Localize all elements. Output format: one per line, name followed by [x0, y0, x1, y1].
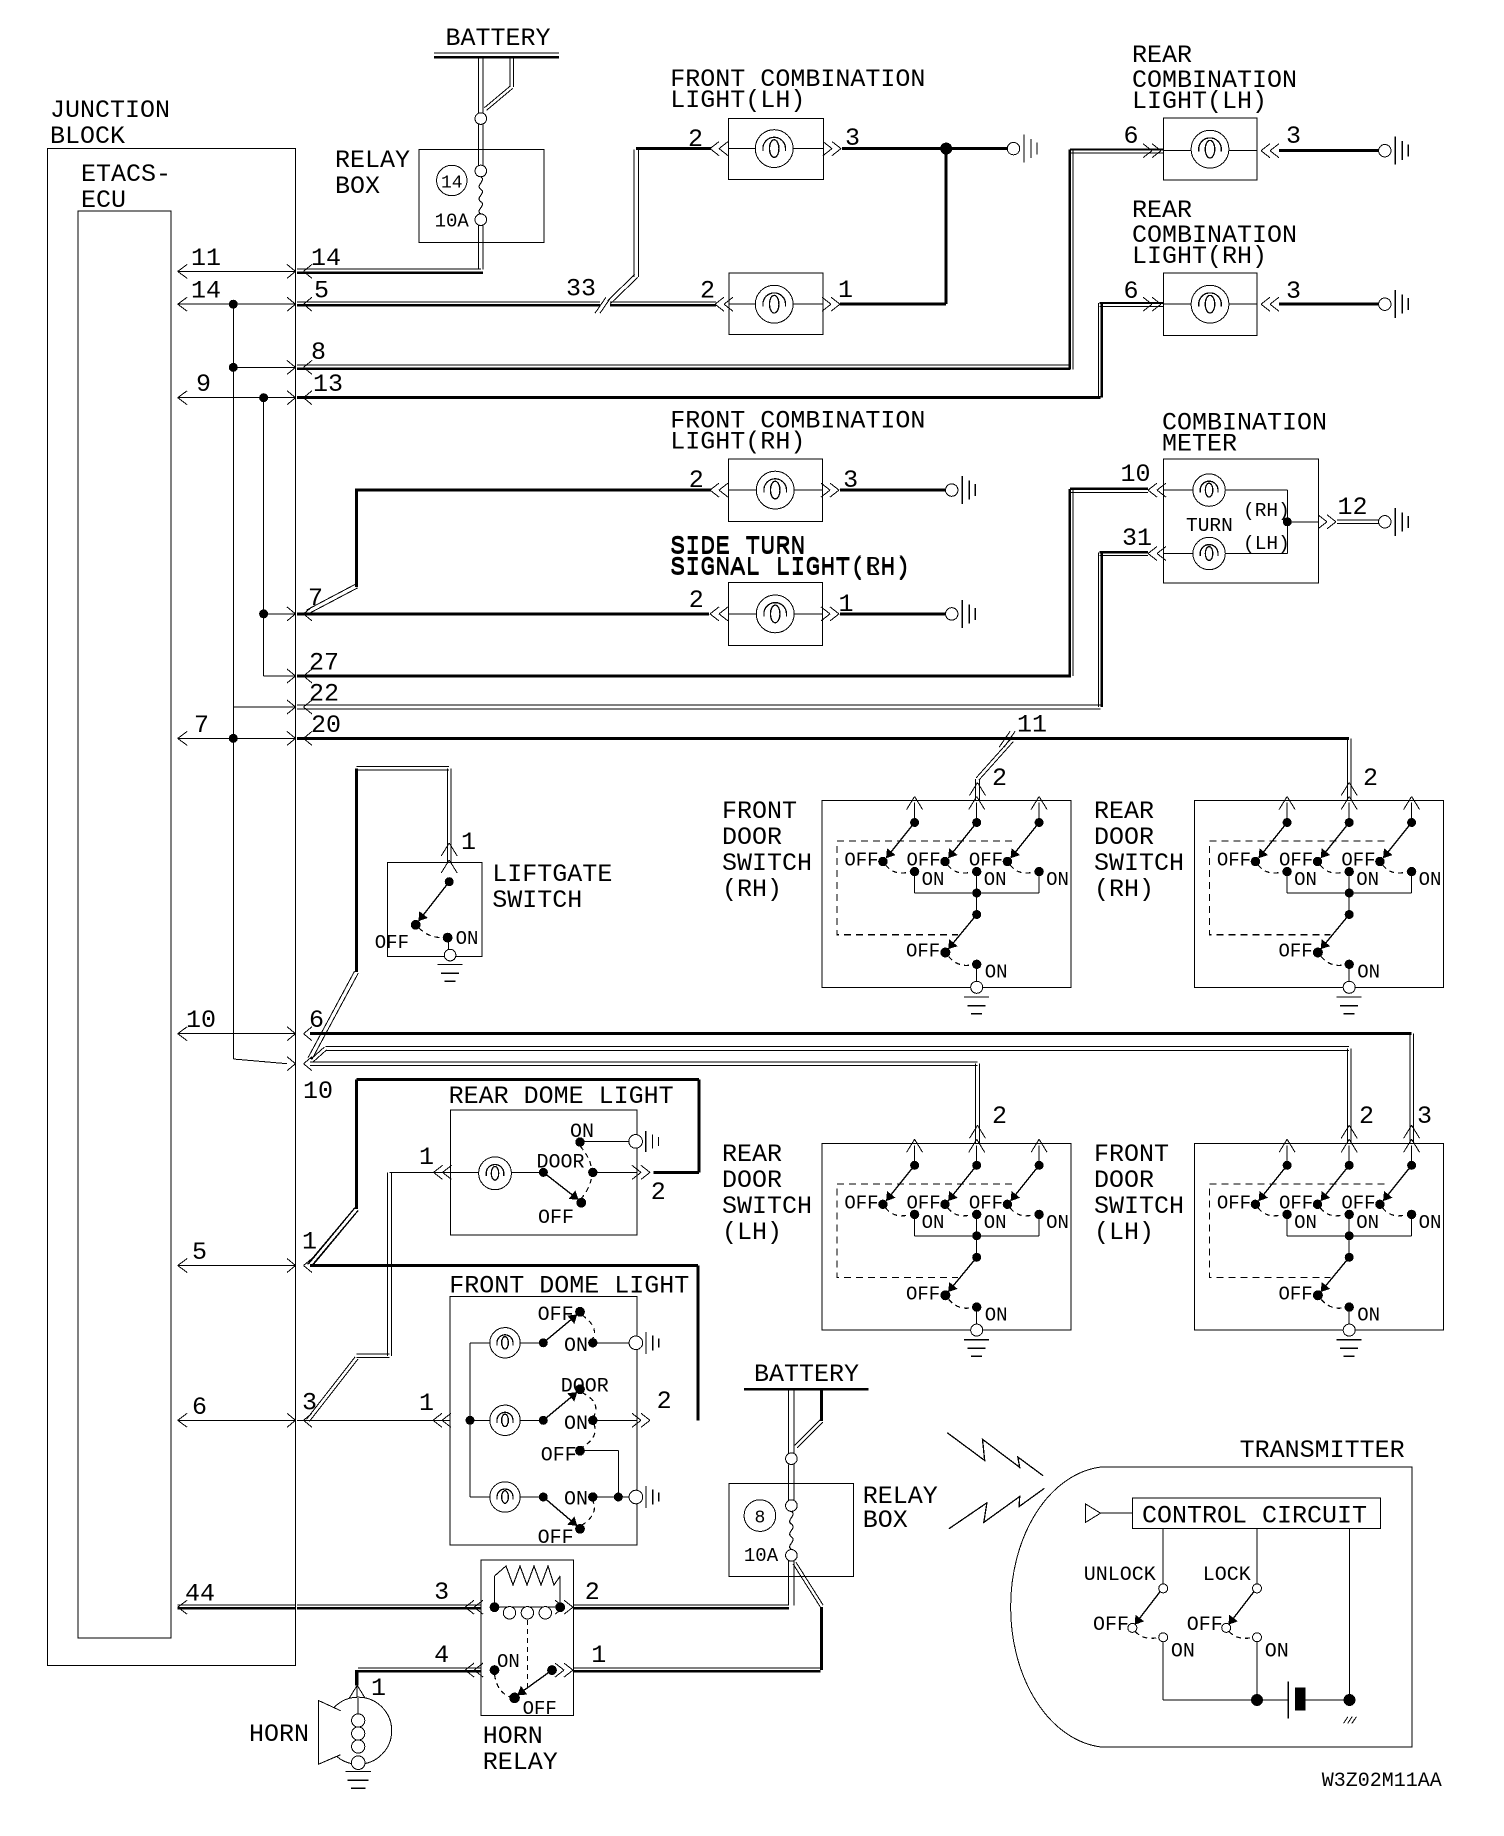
- svg-text:ON: ON: [456, 928, 479, 950]
- svg-text:8: 8: [754, 1509, 765, 1529]
- svg-text:ON: ON: [1265, 1641, 1289, 1664]
- svg-text:OFF: OFF: [1278, 941, 1312, 963]
- svg-text:ON: ON: [1419, 869, 1442, 891]
- svg-text:ON: ON: [1356, 869, 1379, 891]
- svg-text:(LH): (LH): [722, 1218, 782, 1247]
- svg-text:(LH): (LH): [1094, 1218, 1154, 1247]
- svg-text:REAR DOME LIGHT: REAR DOME LIGHT: [449, 1082, 674, 1111]
- svg-text:10A: 10A: [435, 211, 470, 233]
- svg-text:6: 6: [309, 1006, 324, 1035]
- svg-text:LIGHT(LH): LIGHT(LH): [670, 86, 805, 115]
- svg-text:OFF: OFF: [538, 1527, 574, 1550]
- svg-text:FRONT: FRONT: [722, 797, 797, 826]
- svg-text:SWITCH: SWITCH: [722, 1192, 812, 1221]
- svg-text:FRONT: FRONT: [1094, 1140, 1169, 1169]
- svg-text:OFF: OFF: [1187, 1614, 1223, 1637]
- svg-text:LIGHT(RH): LIGHT(RH): [670, 427, 805, 456]
- svg-text:OFF: OFF: [906, 1192, 940, 1214]
- svg-text:ON: ON: [564, 1335, 588, 1358]
- svg-text:ON: ON: [985, 962, 1008, 984]
- svg-text:OFF: OFF: [538, 1304, 574, 1327]
- svg-text:OFF: OFF: [523, 1698, 557, 1720]
- svg-text:ON: ON: [984, 869, 1007, 891]
- svg-text:HORN: HORN: [483, 1722, 543, 1751]
- svg-text:SWITCH: SWITCH: [1094, 849, 1184, 878]
- svg-text:OFF: OFF: [844, 850, 878, 872]
- svg-text:DOOR: DOOR: [561, 1376, 609, 1399]
- svg-text:ON: ON: [1357, 962, 1380, 984]
- svg-text:OFF: OFF: [1217, 1192, 1251, 1214]
- svg-text:METER: METER: [1162, 430, 1237, 459]
- svg-text:JUNCTION: JUNCTION: [50, 96, 170, 125]
- svg-text:SWITCH: SWITCH: [722, 849, 812, 878]
- svg-text:W3Z02M11AA: W3Z02M11AA: [1322, 1770, 1442, 1793]
- svg-text:DOOR: DOOR: [722, 823, 782, 852]
- svg-text:5: 5: [192, 1238, 207, 1267]
- svg-text:11: 11: [191, 244, 221, 273]
- svg-text:1: 1: [371, 1674, 386, 1703]
- svg-text:1: 1: [838, 276, 853, 305]
- svg-text:DOOR: DOOR: [1094, 823, 1154, 852]
- svg-text:TRANSMITTER: TRANSMITTER: [1240, 1436, 1405, 1465]
- svg-text:OFF: OFF: [1279, 1192, 1313, 1214]
- svg-text:OFF: OFF: [1341, 850, 1375, 872]
- svg-text:TURN: TURN: [1186, 515, 1233, 537]
- svg-text:(RH): (RH): [1094, 875, 1154, 904]
- svg-text:1: 1: [419, 1389, 434, 1418]
- svg-text:3: 3: [302, 1388, 317, 1417]
- svg-text:LIGHT(RH): LIGHT(RH): [1132, 242, 1267, 271]
- svg-text:22: 22: [309, 680, 339, 709]
- svg-text:ETACS-: ETACS-: [81, 160, 171, 189]
- svg-text:2: 2: [651, 1178, 666, 1207]
- svg-text:6: 6: [192, 1393, 207, 1422]
- svg-text:BATTERY: BATTERY: [754, 1360, 859, 1389]
- svg-text:BLOCK: BLOCK: [50, 122, 125, 151]
- svg-text:9: 9: [196, 370, 211, 399]
- svg-text:SWITCH: SWITCH: [1094, 1192, 1184, 1221]
- svg-text:44: 44: [185, 1580, 215, 1609]
- svg-text:ON: ON: [922, 869, 945, 891]
- svg-text:2: 2: [992, 764, 1007, 793]
- svg-text:ON: ON: [1294, 1212, 1317, 1234]
- svg-text:ON: ON: [1419, 1212, 1442, 1234]
- svg-text:ON: ON: [564, 1413, 588, 1436]
- svg-text:33: 33: [566, 275, 596, 304]
- svg-text:SIGNAL LIGHT(RH): SIGNAL LIGHT(RH): [670, 553, 910, 582]
- svg-text:13: 13: [313, 370, 343, 399]
- svg-text:(LH): (LH): [1243, 533, 1290, 555]
- svg-text:31: 31: [1122, 524, 1152, 553]
- svg-text:1: 1: [302, 1228, 317, 1257]
- svg-text:(RH): (RH): [722, 875, 782, 904]
- svg-text:1: 1: [461, 828, 476, 857]
- svg-text:3: 3: [1417, 1102, 1432, 1131]
- svg-text:2: 2: [1363, 764, 1378, 793]
- svg-text:4: 4: [434, 1641, 449, 1670]
- svg-text:LIGHT(LH): LIGHT(LH): [1132, 87, 1267, 116]
- svg-text:2: 2: [700, 277, 715, 306]
- svg-text:ON: ON: [564, 1489, 588, 1512]
- svg-text:10A: 10A: [744, 1545, 779, 1567]
- svg-text:ON: ON: [1294, 869, 1317, 891]
- svg-text:3: 3: [434, 1578, 449, 1607]
- svg-text:8: 8: [311, 338, 326, 367]
- svg-text:OFF: OFF: [906, 1283, 940, 1305]
- svg-text:27: 27: [309, 649, 339, 678]
- svg-text:ON: ON: [570, 1121, 594, 1144]
- svg-text:ON: ON: [922, 1212, 945, 1234]
- svg-text:OFF: OFF: [375, 932, 409, 954]
- svg-text:3: 3: [1286, 277, 1301, 306]
- svg-text:OFF: OFF: [844, 1192, 878, 1214]
- svg-text:5: 5: [314, 277, 329, 306]
- svg-text:ON: ON: [1046, 1212, 1069, 1234]
- svg-text:1: 1: [419, 1143, 434, 1172]
- svg-text:CONTROL CIRCUIT: CONTROL CIRCUIT: [1142, 1502, 1367, 1531]
- svg-text:10: 10: [186, 1006, 216, 1035]
- svg-text:OFF: OFF: [1093, 1614, 1129, 1637]
- svg-text:SWITCH: SWITCH: [492, 886, 582, 915]
- svg-text:2: 2: [689, 466, 704, 495]
- svg-text:12: 12: [1338, 493, 1368, 522]
- svg-text:ON: ON: [1046, 869, 1069, 891]
- svg-text:LOCK: LOCK: [1203, 1564, 1251, 1587]
- svg-text:DOOR: DOOR: [537, 1151, 585, 1174]
- svg-text:OFF: OFF: [1217, 850, 1251, 872]
- svg-text:2: 2: [1359, 1102, 1374, 1131]
- svg-text:OFF: OFF: [969, 850, 1003, 872]
- svg-text:UNLOCK: UNLOCK: [1084, 1564, 1156, 1587]
- svg-text:11: 11: [1017, 711, 1047, 740]
- svg-text:14: 14: [311, 244, 341, 273]
- svg-text:ON: ON: [984, 1212, 1007, 1234]
- svg-text:ON: ON: [1171, 1641, 1195, 1664]
- svg-text:HORN: HORN: [249, 1720, 309, 1749]
- svg-text:OFF: OFF: [541, 1444, 577, 1467]
- svg-text:20: 20: [311, 711, 341, 740]
- svg-text:ON: ON: [1356, 1212, 1379, 1234]
- svg-text:OFF: OFF: [1279, 850, 1313, 872]
- svg-text:DOOR: DOOR: [722, 1166, 782, 1195]
- svg-text:7: 7: [194, 711, 209, 740]
- svg-text:ON: ON: [1357, 1304, 1380, 1326]
- svg-text:BATTERY: BATTERY: [446, 24, 551, 53]
- svg-text:OFF: OFF: [1341, 1192, 1375, 1214]
- svg-text:2: 2: [992, 1102, 1007, 1131]
- svg-text:OFF: OFF: [1278, 1283, 1312, 1305]
- svg-text:OFF: OFF: [906, 850, 940, 872]
- svg-text:OFF: OFF: [969, 1192, 1003, 1214]
- svg-text:DOOR: DOOR: [1094, 1166, 1154, 1195]
- svg-text:RELAY: RELAY: [483, 1748, 558, 1777]
- svg-text:REAR: REAR: [722, 1140, 782, 1169]
- svg-text:6: 6: [1124, 277, 1139, 306]
- svg-text:(RH): (RH): [1243, 500, 1290, 522]
- svg-text:FRONT DOME LIGHT: FRONT DOME LIGHT: [449, 1272, 689, 1301]
- svg-text:6: 6: [1124, 122, 1139, 151]
- svg-text:14: 14: [441, 174, 463, 194]
- svg-text:ON: ON: [985, 1304, 1008, 1326]
- svg-text:2: 2: [689, 586, 704, 615]
- svg-text:REAR: REAR: [1094, 797, 1154, 826]
- svg-text:ON: ON: [497, 1651, 520, 1673]
- svg-text:BOX: BOX: [335, 172, 380, 201]
- svg-text:3: 3: [1286, 122, 1301, 151]
- svg-text:BOX: BOX: [863, 1506, 908, 1535]
- svg-text:2: 2: [585, 1578, 600, 1607]
- svg-text:RELAY: RELAY: [335, 146, 410, 175]
- svg-text:ECU: ECU: [81, 186, 126, 215]
- svg-text:1: 1: [591, 1641, 606, 1670]
- svg-text:2: 2: [657, 1387, 672, 1416]
- svg-text:OFF: OFF: [906, 941, 940, 963]
- svg-text:14: 14: [191, 277, 221, 306]
- svg-text:OFF: OFF: [538, 1207, 574, 1230]
- svg-text:LIFTGATE: LIFTGATE: [492, 860, 612, 889]
- svg-text:10: 10: [1121, 460, 1151, 489]
- svg-text:2: 2: [688, 125, 703, 154]
- svg-text:10: 10: [303, 1077, 333, 1106]
